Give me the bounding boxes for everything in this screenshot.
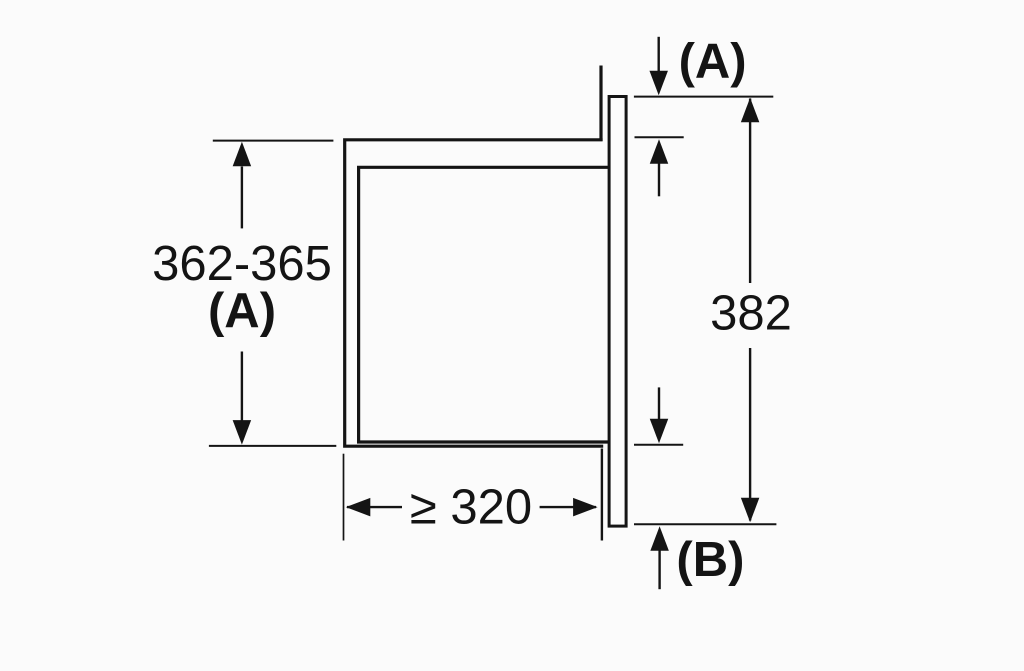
left dimension arrow shaft upper: [241, 167, 243, 229]
shaft of up arrow below panel-bottom line: [658, 550, 660, 589]
svg-text:≥ 320: ≥ 320: [410, 481, 532, 535]
dimension line at niche bottom (right side): [634, 444, 683, 446]
svg-text:362-365: 362-365: [152, 237, 332, 291]
svg-text:382: 382: [710, 287, 792, 341]
arrowhead up (left dim top): [233, 142, 252, 167]
arrowhead down (top A): [649, 71, 668, 96]
dimension line at panel top (A): [634, 96, 773, 98]
dimension line at niche top (right side): [635, 136, 684, 138]
382 dimension shaft lower: [749, 348, 751, 521]
arrowhead down (niche bottom right): [650, 419, 669, 444]
arrowhead up (382 top): [741, 98, 760, 123]
arrowhead right (>=320): [573, 498, 598, 516]
shaft of down arrow above niche-bottom line: [658, 387, 660, 421]
dimension line at panel bottom (B): [634, 523, 776, 525]
arrowhead left (>=320): [346, 498, 371, 516]
cabinet wall line above panel: [599, 66, 602, 142]
extension line right of >=320: [601, 449, 603, 541]
shaft of down arrow top (A): [658, 37, 660, 72]
arrowhead up (panel bottom B): [650, 526, 669, 551]
front panel (appliance frame): [609, 97, 626, 527]
arrowhead down (382 bottom): [741, 498, 760, 523]
svg-text:(B): (B): [676, 533, 744, 587]
arrowhead down (left dim bottom): [233, 420, 252, 445]
arrowhead up (niche top right): [650, 139, 669, 164]
extension line top-left (niche top): [213, 140, 334, 142]
svg-text:(A): (A): [208, 284, 276, 338]
appliance body outline (inner rectangle): [359, 167, 610, 442]
>=320 dimension line left segment: [347, 506, 402, 508]
niche outline (cabinet cutout, open right): [345, 140, 604, 446]
extension line bottom-left (niche bottom): [209, 445, 336, 447]
382 dimension shaft upper: [749, 99, 751, 284]
shaft of up arrow under niche-top line: [658, 163, 660, 196]
left dimension arrow shaft lower: [241, 352, 243, 421]
extension line left of >=320: [343, 454, 345, 541]
svg-text:(A): (A): [679, 35, 747, 89]
>=320 dimension line right segment: [540, 506, 596, 508]
